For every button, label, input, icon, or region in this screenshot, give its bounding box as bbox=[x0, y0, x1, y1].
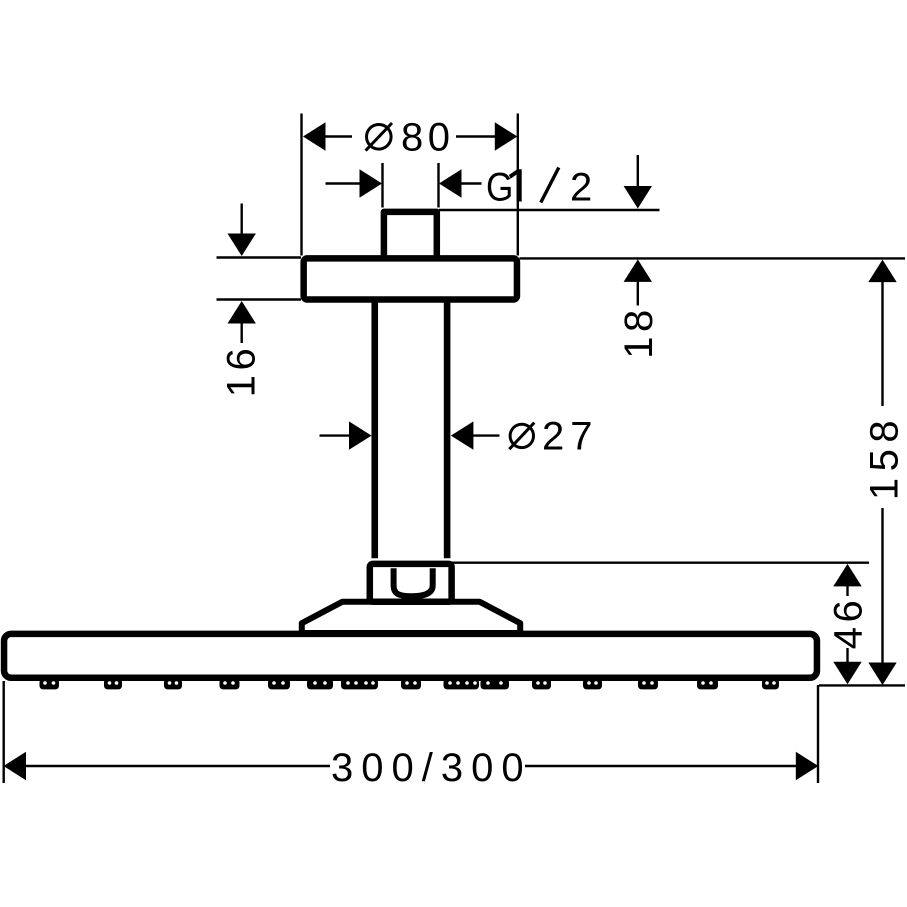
inner cup of nut bbox=[394, 568, 433, 596]
shower head plate bbox=[4, 634, 817, 678]
svg-text:2: 2 bbox=[570, 165, 592, 209]
svg-text:300/300: 300/300 bbox=[331, 746, 532, 790]
dimension 300/300 extension lines bbox=[4, 681, 818, 783]
dimension 300/300 bbox=[4, 746, 819, 790]
ceiling reference line left of flange (bottom) bbox=[217, 298, 302, 300]
nipple top reference line bbox=[439, 209, 660, 211]
connector nut bbox=[370, 564, 452, 602]
svg-text:18: 18 bbox=[617, 305, 661, 359]
ceiling flange bbox=[304, 258, 517, 299]
pipe (vertical shower arm walls) bbox=[375, 299, 447, 558]
dimension Ø27 bbox=[320, 415, 599, 459]
svg-text:G: G bbox=[486, 164, 513, 209]
svg-text:46: 46 bbox=[827, 596, 871, 650]
cone escutcheon above shower head bbox=[302, 602, 520, 633]
dimension Ø80 bbox=[303, 115, 517, 159]
ceiling reference line left of flange (top) bbox=[217, 256, 302, 258]
extension line for 46 (nut top) bbox=[451, 562, 869, 564]
dimension 18 bbox=[617, 259, 661, 358]
nozzle highlight dots bbox=[43, 681, 776, 685]
dimension G1/2 bbox=[326, 164, 593, 209]
svg-text:27: 27 bbox=[542, 415, 599, 459]
dimension 16 (flange thickness) bbox=[220, 204, 264, 398]
G1/2 nipple at top bbox=[384, 212, 437, 258]
svg-text:16: 16 bbox=[220, 344, 264, 398]
dimension Ø80 extension lines bbox=[302, 114, 518, 256]
svg-text:80: 80 bbox=[401, 115, 455, 159]
depth arrow down to nipple top bbox=[624, 155, 652, 209]
dimension G1/2 extension lines bbox=[383, 163, 439, 208]
dimension 46 bbox=[827, 564, 871, 684]
ceiling reference line right of flange (long) bbox=[520, 257, 906, 259]
svg-text:158: 158 bbox=[862, 414, 906, 500]
bottom reference line right of head bbox=[819, 684, 905, 686]
dimension 158 bbox=[862, 260, 906, 685]
nozzles bbox=[40, 679, 780, 690]
